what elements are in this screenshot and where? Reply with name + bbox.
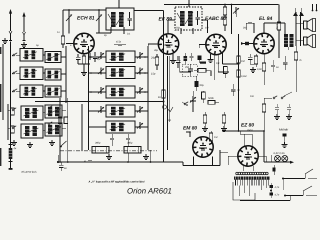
coil unit L15 box	[106, 67, 135, 79]
wire lower links	[43, 110, 66, 130]
wire left bus	[2, 44, 4, 120]
label v14	[299, 59, 302, 62]
coil L-ferrite	[9, 148, 13, 170]
wire IFT1 top lead	[118, 0, 120, 8]
capacitor C-T2	[195, 11, 200, 25]
svg-text:A: A	[83, 159, 86, 163]
wire speaker bus1	[295, 12, 297, 46]
switch S1a	[12, 53, 17, 57]
wire EM80 legs	[194, 157, 213, 166]
trimmer CT5	[233, 7, 239, 17]
coil unit L13 box	[45, 123, 62, 136]
svg-text:25n: 25n	[184, 66, 190, 69]
ground G3	[11, 140, 17, 145]
wire row5 leads	[89, 122, 149, 129]
coil unit L10 box	[21, 106, 43, 120]
coil T1a	[111, 12, 116, 27]
svg-text:500k: 500k	[208, 96, 214, 100]
label v5	[176, 27, 181, 30]
coil unit L16 box	[106, 86, 135, 98]
choke Dr2	[96, 10, 102, 34]
IF transformer T2 box	[175, 7, 202, 30]
wire EL84 anode	[264, 23, 285, 34]
switch S6	[284, 186, 317, 197]
wire EZ80 sides	[228, 156, 266, 165]
resistor R19	[262, 98, 266, 131]
svg-text:6,3V 0,3A: 6,3V 0,3A	[273, 152, 284, 155]
resistor R11	[194, 69, 211, 73]
resistor R14	[223, 5, 231, 35]
ground EF89 k	[170, 54, 176, 63]
wire det link	[180, 71, 211, 77]
label 500k	[208, 96, 214, 100]
padder box P2	[124, 147, 141, 154]
svg-text:Kf=4750 kc/s: Kf=4750 kc/s	[21, 170, 37, 174]
wire top rail mid	[134, 10, 164, 12]
resistor R15	[277, 5, 281, 59]
label 1k	[158, 95, 161, 99]
wire ECH81 left lead	[66, 43, 74, 45]
wire ground bus	[57, 161, 183, 163]
capacitor C17	[283, 56, 288, 70]
resistor R-EABC	[224, 67, 228, 79]
wire EL84 grid link	[253, 23, 255, 33]
coil unit L9 box	[45, 86, 61, 97]
wire mid verticals	[59, 98, 68, 162]
capacitor C18	[271, 60, 279, 72]
svg-text:A „V” kapcsolót a MF egybeállí: A „V” kapcsolót a MF egybeállítás szerin…	[87, 179, 144, 183]
node P	[163, 105, 174, 112]
svg-text:30p: 30p	[154, 49, 159, 52]
svg-text:380p: 380p	[127, 142, 133, 145]
svg-text:15p: 15p	[151, 72, 156, 76]
wire lamp bus	[264, 155, 294, 164]
switch S5 mains	[282, 169, 317, 180]
svg-text:Molnár: Molnár	[279, 128, 289, 132]
wire EABC pin4	[223, 52, 240, 65]
test point arrows	[293, 8, 304, 16]
ferrite chain	[9, 100, 17, 150]
label v1	[57, 31, 60, 34]
svg-text:4,7n: 4,7n	[274, 186, 279, 189]
ground G1	[2, 38, 8, 43]
wire mains right	[270, 179, 283, 192]
svg-text:EF 89: EF 89	[158, 17, 172, 23]
tube V3 EABC80	[206, 34, 226, 54]
wire EABC pin2	[213, 55, 215, 81]
capacitor C-bar	[200, 62, 206, 64]
left scan edge artifact	[0, 47, 1, 166]
label ECH 81	[77, 16, 95, 22]
coil T1b	[119, 12, 124, 27]
output transformer T3	[284, 34, 294, 47]
svg-text:EZ 80: EZ 80	[241, 123, 254, 129]
chassis line	[60, 150, 157, 152]
wire top rail right	[164, 4, 279, 6]
label 100k	[275, 24, 279, 30]
label A note	[83, 159, 92, 163]
wire T2 lead left	[168, 20, 181, 34]
svg-text:1M: 1M	[214, 136, 217, 139]
svg-text:20k: 20k	[242, 26, 248, 29]
capacitor C-mid	[231, 84, 236, 96]
label v15	[36, 44, 39, 47]
ground G2	[21, 42, 27, 47]
coil unit L11 box	[45, 105, 62, 118]
capacitor C24	[59, 162, 68, 171]
svg-text:1M: 1M	[205, 27, 208, 30]
wire B+ mid	[222, 130, 264, 134]
svg-text:4,7p: 4,7p	[116, 40, 122, 44]
label v6	[205, 27, 208, 30]
power transformer T4 pins	[236, 180, 269, 186]
coil unit L18 box	[106, 121, 135, 133]
volume pot P1	[190, 91, 196, 112]
svg-text:50p: 50p	[176, 27, 181, 30]
wire mains bottom	[240, 196, 290, 201]
pilot lamp LA1	[275, 156, 281, 162]
wire selector	[270, 188, 272, 193]
wire main vertical bus	[163, 14, 165, 162]
wire shielded pair a	[167, 56, 169, 150]
coil unit L17 box	[106, 105, 135, 117]
svg-text:380p: 380p	[95, 142, 101, 145]
resistor R-mid3	[58, 117, 67, 124]
label 47p	[116, 40, 122, 44]
label 250V	[246, 129, 253, 132]
switch S2a	[12, 108, 16, 129]
wire k ECH81	[78, 53, 90, 64]
trimmer CT-r3	[98, 87, 143, 94]
switch S1c	[12, 89, 17, 92]
capacitor C14	[222, 112, 226, 126]
label 0,1	[97, 57, 101, 61]
tube V6 EZ80	[238, 146, 258, 166]
label EABC 80	[205, 16, 226, 22]
resistor R-mid1	[237, 56, 246, 63]
ground G5	[49, 140, 55, 145]
grid stopper EL84	[241, 42, 254, 45]
label MF note	[21, 170, 37, 174]
resistor R-mid2	[237, 70, 241, 77]
svg-text:0,5M: 0,5M	[241, 75, 246, 78]
capacitor C 47p	[114, 44, 126, 46]
switch S4	[264, 85, 296, 99]
AVC line	[35, 101, 164, 103]
label 15p	[151, 72, 156, 76]
wire T2 lead right	[193, 20, 208, 34]
capacitor C-ecap	[198, 56, 202, 64]
resistor R-500k	[208, 101, 219, 105]
label det	[216, 61, 220, 65]
ground G6	[106, 154, 112, 159]
wire row4 leads	[89, 106, 149, 113]
wire lower-left bus	[8, 104, 11, 140]
label footnote	[87, 179, 144, 183]
coil unit L14 box	[106, 51, 135, 63]
label EM 80	[183, 126, 197, 132]
wire row1 leads	[89, 56, 149, 58]
wire top rail left	[63, 9, 106, 11]
wire EABC pin1	[210, 54, 212, 57]
speaker SP1	[304, 19, 316, 32]
padder box P1	[92, 147, 109, 154]
capacitor C16	[248, 54, 253, 64]
junction dots rails	[59, 4, 265, 163]
ground EABC	[208, 57, 214, 62]
resistor R-g	[202, 91, 206, 103]
wire EM80 grid	[186, 131, 191, 137]
capacitor C-50u	[195, 76, 205, 91]
svg-text:Orion AR601: Orion AR601	[127, 187, 172, 196]
label v8	[241, 75, 246, 78]
resistor R1	[61, 36, 65, 48]
shield box det	[182, 65, 197, 77]
capacitor C20	[286, 104, 292, 119]
capacitor C-T1	[127, 12, 132, 26]
switch wafer contacts	[11, 108, 14, 133]
svg-text:10n: 10n	[250, 95, 255, 98]
ground G8	[202, 126, 208, 131]
trimmer C-T2a	[177, 12, 193, 24]
wire row links	[16, 55, 45, 91]
IF transformer T1 box	[106, 8, 134, 30]
ground G4	[27, 142, 33, 147]
label EL 84	[259, 16, 272, 22]
wire drop x164	[163, 11, 165, 15]
svg-text:4,7n: 4,7n	[274, 194, 279, 197]
wire row3 leads	[89, 91, 149, 93]
wire EM80 bus	[183, 150, 228, 166]
ground EL84 k	[250, 64, 256, 72]
coil unit L1/L2 box	[20, 49, 43, 62]
coil unit L3/L4 box	[20, 67, 43, 80]
trimmer CT-r2	[98, 68, 143, 75]
capacitor C15	[246, 22, 254, 30]
coil T2a	[180, 11, 185, 26]
coil unit L12 box	[21, 124, 43, 138]
label v4	[154, 49, 159, 52]
capacitor C row6	[110, 134, 130, 146]
choke Dr1	[66, 10, 72, 34]
transformer lead wires	[239, 186, 266, 197]
wire T1 lead left	[96, 27, 111, 33]
wire row2 leads	[89, 72, 149, 74]
switch S3	[182, 102, 188, 106]
wire EZ80 plate feed	[240, 134, 252, 146]
label v2	[103, 34, 107, 37]
coil unit L8 box	[45, 69, 61, 80]
ground G7	[143, 154, 149, 159]
svg-text:EM 80: EM 80	[183, 126, 197, 132]
ground G9	[221, 126, 227, 131]
label 6,3V	[273, 152, 284, 155]
trimmer C-T1a	[108, 13, 124, 25]
capacitor C6	[93, 52, 98, 62]
resistor R12	[209, 131, 213, 144]
tube V5 EM80	[193, 137, 213, 157]
wire T1 lead right	[123, 27, 125, 34]
resistor R18	[257, 54, 266, 85]
capacitor C21	[282, 134, 288, 148]
switch S1b	[12, 71, 17, 74]
wire EABC pin3	[218, 54, 229, 72]
wire right bus	[263, 131, 265, 162]
power transformer T4 windings	[236, 172, 268, 175]
pilot lamp LA2	[282, 156, 288, 162]
wire spk links	[288, 23, 304, 50]
resistor R4	[82, 54, 86, 70]
wire heater drop	[243, 166, 253, 171]
resistor R8	[155, 54, 159, 70]
terminal marks TR	[312, 4, 318, 11]
resistor R13	[223, 5, 227, 18]
label EZ 80	[241, 123, 254, 129]
label v11	[214, 136, 217, 139]
wire shielded pair b	[169, 56, 171, 122]
switch S-band	[48, 106, 66, 148]
wire colB right bus	[147, 46, 149, 150]
svg-text:EL 84: EL 84	[259, 16, 272, 22]
antenna arrow A1	[9, 9, 12, 48]
svg-text:250V: 250V	[246, 129, 253, 132]
coil L19	[184, 53, 188, 64]
tube V4 EL84	[254, 33, 274, 53]
wire ant bus	[10, 48, 12, 100]
wire right mid bus	[238, 34, 240, 131]
resistor R16	[254, 54, 258, 67]
label v3	[127, 33, 131, 36]
label v10	[168, 119, 172, 122]
power transformer box	[233, 182, 255, 200]
capacitor C12 25n	[184, 64, 193, 76]
capacitor C5	[76, 54, 81, 64]
resistor R9	[162, 90, 166, 101]
label Molnar	[279, 128, 289, 132]
label v9	[250, 95, 255, 98]
label v16	[70, 44, 72, 47]
wire drop x63	[62, 10, 64, 36]
capacitor C11b	[190, 53, 194, 61]
label v7	[242, 26, 248, 29]
ground ECH81 k	[81, 70, 87, 75]
svg-text:ECH 81: ECH 81	[77, 16, 95, 22]
capacitor C19	[274, 104, 280, 119]
label 29p	[150, 55, 156, 59]
wire colB left bus	[82, 46, 89, 151]
label EF 89	[158, 17, 172, 23]
coil T2b	[188, 11, 193, 26]
resistor R17	[294, 46, 298, 85]
power transformer T4 core	[234, 177, 270, 180]
wire EF89 left lead	[148, 44, 158, 46]
label v13	[127, 142, 133, 145]
wire EABC left lead	[199, 45, 206, 49]
capacitor C11	[176, 56, 181, 72]
label v12	[95, 142, 101, 145]
wire bus risers	[58, 150, 151, 162]
antenna arrow A2	[22, 12, 25, 41]
capacitor C13	[203, 112, 207, 126]
trimmer CT-r1	[98, 52, 143, 59]
speaker SP2	[304, 35, 316, 48]
coil unit L5/L6 box	[20, 85, 43, 98]
wire IFT2 top lead	[188, 0, 190, 7]
label Orion AR601	[127, 187, 172, 196]
wire col A bus	[61, 46, 66, 103]
capacitor C23 4,7n	[270, 193, 280, 199]
fuse F1	[273, 165, 276, 175]
tube V1 ECH81	[74, 33, 94, 53]
tube V2 EF89	[158, 34, 178, 54]
wire speaker bus2	[300, 12, 302, 46]
svg-text:50µ: 50µ	[199, 84, 204, 87]
svg-text:0,02: 0,02	[257, 68, 262, 71]
coil unit L7 box	[45, 52, 61, 63]
capacitor C22 4,7n	[270, 183, 280, 189]
